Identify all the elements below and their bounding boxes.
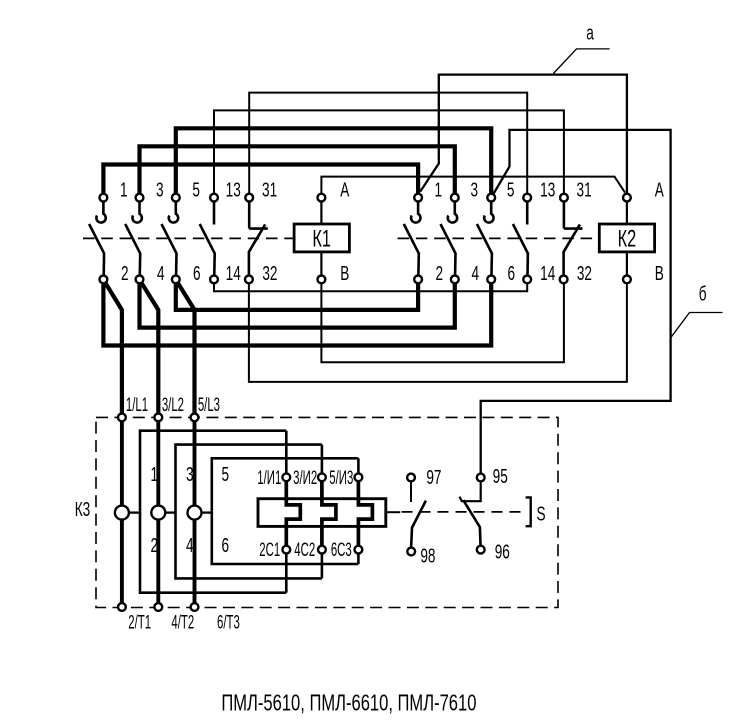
wire: straight-through power path 3/L2-4/T2 xyxy=(156,417,160,607)
K3 pin label 1/И1 xyxy=(257,468,281,489)
svg-text:К2: К2 xyxy=(618,225,637,252)
wire: K1 terminal 32 to K2 coil terminal B (thin) xyxy=(249,279,627,382)
svg-text:ПМЛ-5610, ПМЛ-6610, ПМЛ-7610: ПМЛ-5610, ПМЛ-6610, ПМЛ-7610 xyxy=(221,691,476,716)
K2 pin label 31 (top) xyxy=(577,179,592,201)
K3 pin label 6С3 xyxy=(331,540,352,561)
mechanical trip dashed line to contacts xyxy=(402,511,526,513)
line terminal 3/L2 circle xyxy=(154,414,162,422)
mechanical trip stub from heater block xyxy=(386,511,400,513)
K1 terminal A circle xyxy=(318,194,326,202)
K3 pin label 96 xyxy=(495,541,510,563)
K3 relay heater block (rectangle) xyxy=(258,499,386,527)
K3 heater element 1 (circle with tap stub) xyxy=(115,506,140,520)
svg-text:6: 6 xyxy=(222,535,230,557)
K3 internal pin label 5 xyxy=(222,463,230,485)
svg-text:31: 31 xyxy=(262,179,277,201)
wire: K1 terminal 13 to K2 terminal 31 (top, thin) xyxy=(214,110,564,197)
K1 pin label 31 (top) xyxy=(262,179,277,201)
K3 NO auxiliary contact 97-98 xyxy=(411,481,426,548)
wire: straight-through power path 1/L1-2/T1 xyxy=(120,417,124,607)
contactor K1 pole 5-6 main contact: fixed terminal, arc hook, moving blade xyxy=(162,198,179,280)
K2 terminal 4 circle xyxy=(451,276,459,284)
K3 terminal 5/И3 circle xyxy=(355,473,363,481)
K1 terminal 14 circle xyxy=(210,276,218,284)
wire: phase bus K1 terminal 5 to K2 terminal 5 (top, thick) xyxy=(176,128,491,197)
contactor K2 NC auxiliary contact 31-32 (blade with stop bar) xyxy=(564,198,583,280)
contactor K2 pole 3-4 main contact: fixed terminal, arc hook, moving blade xyxy=(441,198,458,280)
svg-text:а: а xyxy=(586,22,594,44)
svg-text:2С1: 2С1 xyxy=(259,540,280,561)
K2 pin label 1 (top) xyxy=(435,179,443,201)
svg-text:4С2: 4С2 xyxy=(294,540,315,561)
K2 terminal A circle xyxy=(623,194,631,202)
K1 terminal 13 circle xyxy=(210,194,218,202)
svg-text:3: 3 xyxy=(156,179,164,201)
svg-text:А: А xyxy=(655,179,665,201)
svg-text:5: 5 xyxy=(192,179,200,201)
wire: phase bus K1 terminal 1 to K2 terminal 1 (top, thick) xyxy=(103,165,418,198)
svg-text:5: 5 xyxy=(507,179,515,201)
coil wires K2 A-B xyxy=(626,198,628,280)
K2 terminal 5 circle xyxy=(487,194,495,202)
svg-text:98: 98 xyxy=(420,545,435,567)
K2 terminal 1 circle xyxy=(414,194,422,202)
K2 pin label 6 (bottom) xyxy=(508,262,516,284)
K1 pin label 5 (top) xyxy=(192,179,200,201)
K2 terminal B circle xyxy=(623,276,631,284)
load terminal 2/T1 circle xyxy=(118,603,126,611)
svg-text:4: 4 xyxy=(186,535,194,557)
K2 terminal 6 circle xyxy=(487,276,495,284)
op coil K1 box xyxy=(294,224,349,252)
K1 terminal 3 circle xyxy=(136,194,144,202)
line terminal 5/L3 circle xyxy=(191,414,199,422)
wire a: K2 coil terminal A up and over to tap on K2 terminal 1 xyxy=(420,75,627,198)
K1 pin label А (top) xyxy=(340,179,350,201)
K2 pin label 3 (top) xyxy=(471,179,479,201)
K2 pin label В (bottom) xyxy=(655,262,664,284)
svg-text:3/L2: 3/L2 xyxy=(162,395,184,416)
K1 terminal 31 circle xyxy=(245,194,253,202)
svg-text:32: 32 xyxy=(262,262,277,284)
contactor K1 NO auxiliary contact 13-14 xyxy=(200,198,215,280)
wire: relay column 2 verticals to И/С terminals xyxy=(321,445,324,579)
K1 pin label 32 (bottom) xyxy=(262,262,277,284)
K3 terminal 1/И1 circle xyxy=(282,473,290,481)
svg-text:14: 14 xyxy=(226,262,241,284)
K3 heater element 3 (circle with tap stub) xyxy=(188,506,212,520)
K1 terminal 5 circle xyxy=(172,194,180,202)
wire: K1 coil terminal B to K2 terminal 32 (thin) xyxy=(321,279,564,362)
K1 terminal 6 circle xyxy=(172,276,180,284)
load terminal 6/T3 circle xyxy=(191,603,199,611)
wire: K1 terminal 31 to K2 terminal 13 (top, thin) xyxy=(249,93,527,198)
K1 pin label 4 (bottom) xyxy=(157,262,165,284)
load terminal label 2/T1 xyxy=(128,613,151,634)
svg-text:14: 14 xyxy=(540,262,555,284)
heater meander wire 1 through block xyxy=(286,477,300,549)
wire: straight-through power path 5/L3-6/T3 xyxy=(193,417,197,607)
K3 internal pin label 1 xyxy=(151,463,159,485)
svg-text:2: 2 xyxy=(436,262,444,284)
contactor K2 pole 1-2 main contact: fixed terminal, arc hook, moving blade xyxy=(404,198,421,280)
K3 internal pin label 6 xyxy=(222,535,230,557)
K1 terminal 2 circle xyxy=(100,276,108,284)
K2 terminal 2 circle xyxy=(414,276,422,284)
K2 pin label 14 (bottom) xyxy=(540,262,555,284)
K3 terminal 4С2 circle xyxy=(318,546,326,554)
svg-text:13: 13 xyxy=(226,179,241,201)
svg-text:К1: К1 xyxy=(312,225,331,252)
K3 terminal 98 circle xyxy=(407,548,415,556)
wire: K1 terminal 4 to K2 terminal 4 (bottom, thick) xyxy=(140,279,455,327)
K2 terminal 31 circle xyxy=(560,194,568,202)
wire: K1 terminal 2 diagonal down to line terminal 1/L1 (thick) xyxy=(105,282,122,418)
K1 terminal 32 circle xyxy=(245,276,253,284)
K2 pin label 13 (top) xyxy=(540,179,555,201)
wire: relay column 3 verticals to И/С terminals xyxy=(357,458,360,564)
title caption xyxy=(221,691,476,716)
wire: K1 terminal 14 to K2 terminal 14 (thin) xyxy=(214,279,527,291)
K1 terminal 4 circle xyxy=(136,276,144,284)
K1 terminal 1 circle xyxy=(100,194,108,202)
contactor K1 pole 1-2 main contact: fixed terminal, arc hook, moving blade xyxy=(89,198,106,280)
wire: K1 terminal 2 to K2 terminal 6 (bottom, thick) xyxy=(103,279,491,345)
svg-text:S: S xyxy=(536,503,545,525)
reset button S bracket xyxy=(526,497,531,526)
K2 mechanical linkage dashed line xyxy=(398,237,600,239)
svg-text:2: 2 xyxy=(121,262,129,284)
load terminal label 4/T2 xyxy=(171,613,194,634)
svg-text:4: 4 xyxy=(157,262,165,284)
svg-text:6: 6 xyxy=(193,262,201,284)
node b label xyxy=(699,283,707,305)
wire: K1 terminal 4 diagonal down to line terminal 3/L2 (thick) xyxy=(141,282,159,418)
K2 terminal 14 circle xyxy=(523,276,531,284)
svg-text:В: В xyxy=(655,262,664,284)
K3 internal pin label 2 xyxy=(151,535,159,557)
line terminal 1/L1 circle xyxy=(118,414,126,422)
K3 terminal 2С1 circle xyxy=(282,546,290,554)
K1 pin label В (bottom) xyxy=(340,262,349,284)
K2 pin label 32 (bottom) xyxy=(577,262,592,284)
wire: K1 coil terminal A to K2 coil terminal A (thin) xyxy=(321,177,625,198)
node a label xyxy=(586,22,594,44)
svg-text:2/T1: 2/T1 xyxy=(128,613,151,634)
K1 pin label 13 (top) xyxy=(226,179,241,201)
wire: K1 terminal 6 to K2 terminal 2 (bottom, thick) xyxy=(176,279,418,310)
svg-text:1/И1: 1/И1 xyxy=(257,468,281,489)
K2 pin label А (top) xyxy=(655,179,665,201)
contactor K1 NC auxiliary contact 31-32 (blade with stop bar) xyxy=(249,198,268,280)
svg-text:31: 31 xyxy=(577,179,592,201)
K3 secondary loop 1: left leg and top/bottom runs xyxy=(140,431,286,593)
K1 pin label 1 (top) xyxy=(120,179,128,201)
load terminal label 6/T3 xyxy=(217,613,240,634)
K3 pin label 95 xyxy=(493,465,508,487)
K1 terminal B circle xyxy=(318,276,326,284)
K3 pin label 2С1 xyxy=(259,540,280,561)
svg-text:5/L3: 5/L3 xyxy=(198,395,220,416)
contactor K2 pole 5-6 main contact: fixed terminal, arc hook, moving blade xyxy=(477,198,494,280)
contactor K1 pole 3-4 main contact: fixed terminal, arc hook, moving blade xyxy=(125,198,142,280)
contactor K2 NO auxiliary contact 13-14 xyxy=(513,198,528,280)
svg-text:1: 1 xyxy=(435,179,443,201)
K2 pin label 2 (bottom) xyxy=(436,262,444,284)
wire b: tap on K2 terminal 5 up, right and down right side to relay contact 95 xyxy=(481,130,671,478)
K3 terminal 97 circle xyxy=(407,474,415,482)
K3 secondary loop 2: left leg and top/bottom runs xyxy=(176,445,322,579)
wire: relay column 1 verticals to И/С terminals xyxy=(285,431,288,593)
K3 pin label 4С2 xyxy=(294,540,315,561)
svg-text:В: В xyxy=(340,262,349,284)
K3 pin label 5/И3 xyxy=(329,468,353,489)
svg-text:13: 13 xyxy=(540,179,555,201)
svg-text:2: 2 xyxy=(151,535,159,557)
coil wires K1 A-B xyxy=(320,198,322,280)
K3 internal pin label 4 xyxy=(186,535,194,557)
wire: phase bus K1 terminal 3 to K2 terminal 3 (top, thick) xyxy=(140,146,455,197)
K2 terminal 13 circle xyxy=(523,194,531,202)
svg-text:32: 32 xyxy=(577,262,592,284)
K3 terminal 95 circle xyxy=(477,474,485,482)
svg-text:95: 95 xyxy=(493,465,508,487)
svg-text:3/И2: 3/И2 xyxy=(293,468,317,489)
svg-text:1: 1 xyxy=(120,179,128,201)
svg-text:б: б xyxy=(699,283,707,305)
load terminal 4/T2 circle xyxy=(154,603,162,611)
line terminal label 3/L2 xyxy=(162,395,184,416)
svg-text:5: 5 xyxy=(222,463,230,485)
K2 terminal 3 circle xyxy=(451,194,459,202)
svg-text:6: 6 xyxy=(508,262,516,284)
K3 pin label 3/И2 xyxy=(293,468,317,489)
line terminal label 1/L1 xyxy=(126,395,148,416)
K3 terminal 96 circle xyxy=(477,546,485,554)
K1 pin label 14 (bottom) xyxy=(226,262,241,284)
K2 pin label 4 (bottom) xyxy=(472,262,480,284)
svg-text:97: 97 xyxy=(426,466,441,488)
svg-text:6С3: 6С3 xyxy=(331,540,352,561)
svg-text:5/И3: 5/И3 xyxy=(329,468,353,489)
svg-text:1: 1 xyxy=(151,463,159,485)
heater meander wire 2 through block xyxy=(322,477,336,549)
K3 reference label xyxy=(75,499,90,521)
K3 heater element 2 (circle with tap stub) xyxy=(151,506,175,520)
svg-text:6/T3: 6/T3 xyxy=(217,613,240,634)
K3 internal pin label 3 xyxy=(186,463,194,485)
leader line for node b xyxy=(671,313,723,338)
K3 secondary loop 3: left leg and top/bottom runs xyxy=(212,458,359,564)
K3 pin label 98 xyxy=(420,545,435,567)
thermal relay K3 dashed enclosure xyxy=(96,417,558,607)
svg-text:3: 3 xyxy=(471,179,479,201)
label S xyxy=(536,503,545,525)
svg-text:4/T2: 4/T2 xyxy=(171,613,194,634)
K1 pin label 6 (bottom) xyxy=(193,262,201,284)
svg-text:1/L1: 1/L1 xyxy=(126,395,148,416)
line terminal label 5/L3 xyxy=(198,395,220,416)
K1 mechanical linkage dashed line xyxy=(83,237,294,239)
wire: K1 terminal 6 diagonal down to line terminal 5/L3 (thick) xyxy=(177,282,195,418)
K2 pin label 5 (top) xyxy=(507,179,515,201)
leader line for node a xyxy=(553,49,609,74)
svg-text:96: 96 xyxy=(495,541,510,563)
K3 terminal 3/И2 circle xyxy=(318,473,326,481)
svg-text:4: 4 xyxy=(472,262,480,284)
K3 NC trip contact 95-96 with latch xyxy=(459,481,480,548)
K1 pin label 3 (top) xyxy=(156,179,164,201)
svg-text:3: 3 xyxy=(186,463,194,485)
K3 terminal 6С3 circle xyxy=(355,546,363,554)
svg-text:А: А xyxy=(340,179,350,201)
K1 pin label 2 (bottom) xyxy=(121,262,129,284)
K2 terminal 32 circle xyxy=(560,276,568,284)
op coil K2 box xyxy=(599,224,654,252)
heater meander wire 3 through block xyxy=(358,477,372,549)
K3 pin label 97 xyxy=(426,466,441,488)
svg-text:К3: К3 xyxy=(75,499,90,521)
